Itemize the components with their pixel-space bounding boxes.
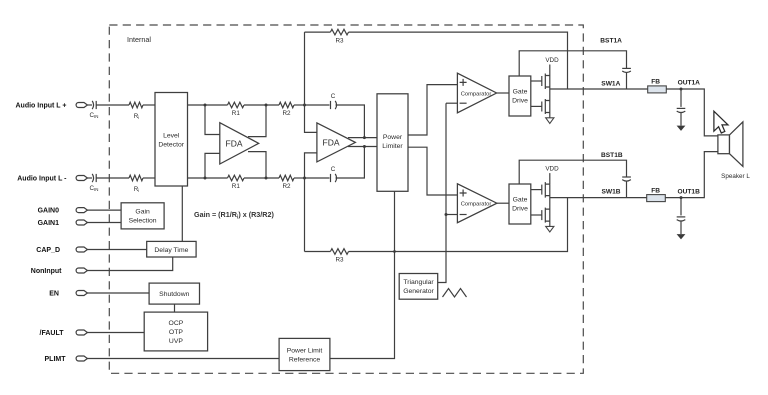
wire node C2 to cap C bottom: [305, 177, 330, 179]
wire FDA1 input stub bottom: [205, 153, 220, 178]
svg-text:FB: FB: [651, 187, 660, 194]
svg-text:SW1A: SW1A: [601, 80, 620, 87]
svg-text:Triangular: Triangular: [403, 279, 434, 286]
wire R3B feedback left vertical: [304, 178, 306, 252]
wire comparator B output: [497, 202, 509, 204]
node PL vertical x R3B crossing: [393, 250, 396, 253]
wire CIN to Ri bottom: [96, 177, 129, 179]
wire FDA1 output stub top: [248, 105, 266, 137]
svg-text:R3: R3: [335, 37, 344, 44]
svg-text:Gain: Gain: [135, 209, 150, 216]
block Power Limiter: [377, 94, 408, 192]
capacitor BST A: [622, 68, 631, 89]
svg-text:VDD: VDD: [545, 57, 559, 64]
node comparator B - junction: [445, 213, 448, 216]
wire R1 to R2 top: [244, 104, 279, 106]
svg-text:GAIN1: GAIN1: [38, 220, 60, 227]
node B1: [265, 104, 268, 107]
svg-text:FDA: FDA: [226, 139, 243, 149]
svg-text:Selection: Selection: [129, 218, 157, 225]
power VDD B: [545, 166, 559, 185]
node C1: [303, 104, 306, 107]
wire CAP_D: [87, 249, 147, 251]
svg-text:Reference: Reference: [289, 357, 321, 364]
wire SW1B line: [550, 197, 647, 199]
wire cap C to corner, up to FDA2 out bottom: [336, 147, 365, 179]
svg-text:/FAULT: /FAULT: [40, 330, 65, 337]
svg-text:Power Limit: Power Limit: [287, 348, 323, 355]
svg-text:Detector: Detector: [158, 142, 184, 149]
svg-text:Gate: Gate: [513, 197, 528, 204]
wire FDA2 input stub top: [305, 105, 317, 132]
node C2: [303, 177, 306, 180]
capacitor CIN (bottom): [90, 174, 99, 192]
wire FDA1 output stub bottom: [248, 152, 266, 178]
resistor R1 (top): [228, 102, 245, 117]
capacitor C (bottom): [331, 166, 337, 182]
node B2: [265, 177, 268, 180]
ground OUT1B (filled arrow): [677, 234, 686, 239]
block Triangular Generator: [399, 274, 438, 300]
svg-text:SW1B: SW1B: [602, 188, 621, 195]
svg-text:Limiter: Limiter: [382, 143, 403, 150]
ferrite bead FB A: [648, 79, 667, 93]
svg-text:OUT1A: OUT1A: [678, 79, 701, 86]
resistor R2 (bottom): [279, 175, 294, 190]
svg-text:OCP: OCP: [169, 320, 184, 327]
ground OUT1A (filled arrow): [677, 126, 686, 131]
wire audio- pin to CIN: [87, 177, 92, 179]
wire comparator A output: [497, 92, 509, 94]
svg-text:Drive: Drive: [512, 98, 528, 105]
op-amp FDA1: [220, 123, 259, 164]
capacitor BST B: [622, 177, 631, 198]
transistor Q4 (B low side): [531, 208, 550, 223]
resistor Ri (top): [129, 102, 143, 120]
wire cap C to corner, down to FDA2 out top: [336, 105, 365, 138]
block Level Detector: [155, 93, 188, 187]
comparator U2 (channel B): [457, 184, 497, 223]
svg-text:EN: EN: [49, 291, 59, 298]
svg-text:Drive: Drive: [512, 206, 528, 213]
svg-text:BST1A: BST1A: [600, 37, 622, 44]
capacitor C (top): [331, 93, 337, 109]
wire triangle-wave distribution vertical: [438, 103, 446, 282]
wire FDA2 output bottom to Power Limiter: [348, 146, 377, 148]
capacitor CIN (top): [90, 101, 99, 119]
svg-text:GAIN0: GAIN0: [38, 208, 60, 215]
wire PLIMT to Power Limit Reference: [87, 358, 279, 360]
wire OUT1B: [665, 152, 718, 198]
wire R3B feedback bottom right segment and up to SW1B: [349, 198, 568, 252]
block OCP OTP UVP: [144, 312, 207, 351]
wire FDA2 output top to Power Limiter: [348, 137, 377, 139]
transistor Q2 (A low side): [531, 99, 550, 114]
svg-text:FB: FB: [651, 79, 660, 86]
wire Level Detector to Delay Time: [181, 186, 183, 241]
pin Audio Input L +: [15, 103, 87, 110]
wire R2 to node C2: [294, 177, 305, 179]
wire GAIN0: [87, 209, 121, 211]
pin GAIN0: [38, 208, 88, 215]
svg-text:R1: R1: [232, 183, 241, 190]
cursor: [714, 111, 728, 133]
resistor R2 (top): [279, 102, 294, 117]
svg-text:R2: R2: [282, 110, 291, 117]
svg-text:Gate: Gate: [513, 89, 528, 96]
wire Power Limiter upper output to comparator A +: [408, 85, 457, 135]
wire OUT1A: [666, 89, 718, 136]
svg-text:Shutdown: Shutdown: [159, 291, 189, 298]
wire stage1 top line: [188, 104, 228, 106]
svg-text:FDA: FDA: [323, 138, 340, 148]
block Delay Time: [147, 241, 196, 257]
pin PLIMT: [45, 356, 88, 363]
wire Shutdown to OCP: [174, 304, 176, 312]
capacitor OUT1A filter: [677, 89, 686, 126]
svg-text:Comparator: Comparator: [461, 91, 492, 97]
svg-text:Gain = (R1/Ri) x (R3/R2): Gain = (R1/Ri) x (R3/R2): [194, 210, 274, 220]
svg-text:BST1B: BST1B: [601, 152, 623, 159]
node A2: [204, 177, 207, 180]
pin EN: [49, 291, 87, 298]
pin Audio Input L -: [17, 176, 87, 183]
wire comparator B - input: [446, 214, 457, 216]
node FDA2 out top: [363, 136, 366, 139]
svg-text:R1: R1: [232, 110, 241, 117]
wire R3B feedback bottom left segment: [305, 251, 331, 253]
wire CIN to Ri: [96, 104, 129, 106]
svg-text:C: C: [331, 166, 336, 173]
svg-text:VDD: VDD: [545, 166, 559, 173]
capacitor OUT1B filter: [677, 198, 686, 235]
node FDA2 out bottom: [363, 145, 366, 148]
comparator U1 (channel A): [457, 73, 496, 113]
wire EN: [87, 292, 149, 294]
wire /FAULT: [87, 332, 144, 334]
svg-text:PLIMT: PLIMT: [45, 356, 67, 363]
svg-text:R2: R2: [282, 183, 291, 190]
svg-text:Delay Time: Delay Time: [154, 247, 188, 254]
internal dashed boundary: [109, 25, 583, 373]
node OUT1B: [680, 196, 683, 199]
ground A: [546, 118, 554, 124]
triangle wave icon: [443, 289, 467, 298]
svg-text:Generator: Generator: [403, 288, 434, 295]
svg-text:CAP_D: CAP_D: [36, 247, 60, 254]
pin CAP_D: [36, 247, 87, 254]
svg-text:Comparator: Comparator: [461, 202, 492, 208]
block Shutdown: [149, 283, 199, 304]
node A1: [204, 104, 207, 107]
block Power Limit Reference: [279, 338, 330, 370]
svg-text:R3: R3: [335, 257, 344, 264]
speaker Speaker L: [718, 122, 750, 180]
node OUT1A: [680, 88, 683, 91]
wire BST1A from gate drive top: [519, 51, 626, 76]
wire comparator A - input: [446, 102, 457, 104]
svg-text:Internal: Internal: [127, 35, 151, 44]
wire R3A feedback top left segment: [305, 31, 331, 33]
svg-text:NonInput: NonInput: [31, 268, 62, 275]
wire Power Limit Reference to Power Limiter: [330, 191, 395, 358]
wire Ri to Level Detector bottom: [143, 177, 155, 179]
wire GAIN1: [87, 222, 121, 224]
transistor Q1 (A high side): [531, 74, 550, 90]
svg-text:Audio Input L -: Audio Input L -: [17, 176, 67, 183]
svg-text:C: C: [331, 93, 336, 100]
resistor R1 (bottom): [228, 175, 245, 190]
resistor R3 (top feedback): [330, 29, 348, 44]
pin GAIN1: [38, 220, 88, 227]
wire R2 to node C1: [294, 104, 305, 106]
wire R1 to R2 bottom: [244, 177, 279, 179]
ground B: [546, 226, 554, 232]
wire node C1 to cap C top: [305, 104, 330, 106]
wire Ri to Level Detector: [143, 104, 155, 106]
block Gate Drive A: [509, 76, 531, 116]
power VDD A: [545, 57, 559, 76]
wire R3A feedback left vertical: [304, 32, 306, 105]
wire NonInput: [87, 257, 173, 271]
block Gate Drive B: [509, 184, 531, 224]
wire BST1B from gate drive top: [519, 160, 626, 184]
wire SW1A line: [550, 88, 648, 90]
svg-text:Power: Power: [383, 134, 403, 141]
transistor Q3 (B high side): [531, 182, 550, 198]
pin /FAULT: [40, 330, 88, 337]
block Gain Selection: [121, 203, 164, 229]
svg-text:OTP: OTP: [169, 329, 183, 336]
wire R3A feedback top right segment and down to SW1A: [349, 32, 568, 89]
wire FDA2 input stub bottom: [305, 153, 317, 178]
svg-text:Speaker L: Speaker L: [721, 173, 750, 180]
wire B half-bridge trunk: [549, 184, 551, 226]
svg-text:Level: Level: [163, 133, 180, 140]
ferrite bead FB B: [647, 187, 666, 201]
svg-text:OUT1B: OUT1B: [678, 188, 701, 195]
wire FDA1 input stub top: [205, 105, 220, 135]
resistor Ri (bottom): [129, 175, 143, 193]
resistor R3 (bottom feedback): [330, 249, 348, 264]
wire Power Limiter lower output to comparator B +: [408, 147, 457, 195]
wire stage1 bottom line: [188, 177, 228, 179]
wire audio+ pin to CIN: [87, 104, 92, 106]
svg-text:Audio Input L +: Audio Input L +: [15, 103, 66, 110]
svg-text:UVP: UVP: [169, 338, 183, 345]
pin NonInput: [31, 268, 88, 275]
wire A half-bridge trunk: [549, 76, 551, 118]
op-amp FDA2: [317, 123, 356, 162]
